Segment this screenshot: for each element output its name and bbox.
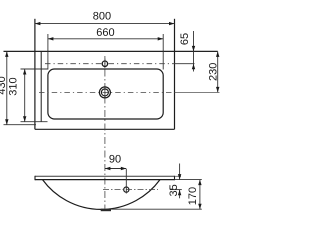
- 35 lower dimension segment (front view, outside arrow): [179, 190, 181, 199]
- 660 extension line left: [47, 34, 49, 70]
- faucet hole (top view): [102, 61, 107, 66]
- outer rectangle left edge (with 800 extension above): [34, 19, 36, 130]
- 310 top extension line: [21, 68, 48, 70]
- bottom extension line (front view baseline): [111, 208, 202, 210]
- front view bowl curve: [43, 180, 161, 210]
- centerline solid crossing at drain: [104, 87, 106, 99]
- deck right end cap: [174, 176, 176, 180]
- svg-text:90: 90: [109, 153, 121, 165]
- deck top extension line right (short): [175, 175, 181, 177]
- outer rectangle bottom edge: [35, 128, 175, 130]
- deck bottom extension line right: [175, 179, 202, 181]
- centerline solid crossing at faucet: [104, 59, 106, 69]
- drain centerline (horizontal dash-dot): [39, 91, 175, 93]
- 660 extension line right: [162, 34, 164, 70]
- svg-text:310: 310: [7, 77, 19, 95]
- 430 bottom extension line: [4, 124, 37, 126]
- drain inner circle (top view): [101, 89, 108, 96]
- svg-text:660: 660: [96, 27, 114, 39]
- deck left end cap: [34, 176, 36, 180]
- overflow horizontal centerline (front view, dash-dot): [103, 189, 158, 191]
- dimension line 90 (front view): [105, 168, 126, 170]
- 310 bottom extension line: [21, 121, 48, 123]
- svg-text:170: 170: [187, 187, 199, 205]
- front view deck bottom edge: [35, 179, 175, 181]
- rim contour left line: [40, 51, 42, 121]
- dimension 65 (right side, outside arrows): [193, 31, 195, 72]
- svg-text:800: 800: [93, 10, 111, 22]
- main vertical centerline (dash-dot through both views): [104, 56, 106, 209]
- dimension line 170 (front view): [199, 180, 201, 210]
- basin opening rounded rectangle: [48, 69, 163, 119]
- front view deck top edge: [35, 175, 175, 177]
- overflow centerline solid extension to 35 dim: [170, 189, 182, 191]
- drain centerline extension (solid right, to 230 dim line): [175, 91, 220, 93]
- overflow hole circle (front view): [124, 187, 129, 192]
- drain fitting bar (front view): [101, 209, 111, 212]
- faucet hole centerline extension (solid right, ends at 65 dim line): [175, 63, 195, 65]
- dimension line 310 (left): [24, 69, 26, 122]
- dimension line 800: [35, 23, 175, 25]
- faucet hole centerline (horizontal dash-dot): [45, 63, 175, 65]
- dimension line 230 (far right): [217, 51, 219, 92]
- dimension line 660: [48, 38, 163, 40]
- svg-text:230: 230: [207, 63, 219, 81]
- svg-text:35: 35: [168, 184, 180, 196]
- dimension line 430 (left): [6, 51, 8, 124]
- drain outer circle (top view): [99, 87, 110, 98]
- svg-text:65: 65: [179, 33, 191, 45]
- outer rectangle right edge (with 800 extension above): [174, 19, 176, 130]
- 35 upper dimension segment (front view, outside arrow): [179, 164, 181, 180]
- overflow vertical extension line (front view): [125, 169, 127, 194]
- top edge line of basin top view, extended left to 430 dim and right to 230 dim: [4, 50, 218, 52]
